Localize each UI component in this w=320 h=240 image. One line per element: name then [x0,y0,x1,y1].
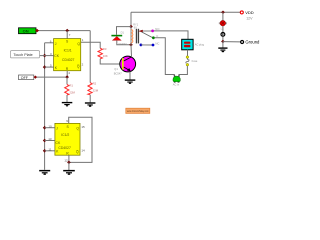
wire cell to ground node [222,37,224,42]
label 1N4007 [118,43,127,46]
label L1 [221,27,225,31]
ground R1 [62,102,73,107]
svg-text:CD4027: CD4027 [58,146,71,150]
svg-text:Fuse: Fuse [192,59,198,63]
label R1 [69,83,73,87]
wire rail corner down to relay [130,12,132,26]
node J2 junction [43,126,47,130]
wire R2 node to ground [68,162,70,170]
label VDD [245,10,254,15]
node R2 junction [67,161,71,165]
label pin 3 [50,52,52,56]
transistor Q1 [120,56,136,72]
svg-text:R3: R3 [103,47,107,51]
label 22M R1 [69,91,75,95]
wire fuse to AC source [179,66,187,76]
svg-text:BC547: BC547 [114,71,122,75]
wire S pin [66,31,68,39]
node CK2 junction [43,139,47,143]
label NC [155,41,159,45]
Touch Plate label [10,51,39,58]
svg-text:Q̅: Q̅ [76,150,79,154]
ON label [19,28,40,34]
wire J2 pin [45,127,55,129]
wire lamp to cell [222,26,224,32]
label D1 [121,30,125,34]
label 22M R2 [93,88,99,92]
wire CK pin [45,55,54,57]
cell B1 [221,33,225,37]
OFF label [19,75,38,80]
AC plug [182,39,193,50]
wire plug to fuse [187,50,189,56]
wire R2 pin down [68,155,70,162]
svg-text:6V: 6V [134,26,137,29]
relay contact NO [151,30,154,33]
label C [156,34,158,38]
svg-text:14: 14 [81,148,85,152]
wire NO to AC plug [154,31,188,39]
label 10K [103,54,108,58]
wire collector to relay [130,45,133,57]
svg-text:ON: ON [23,29,29,34]
label BC547 [114,71,122,75]
wire CK2 pin [45,140,55,142]
wire C to AC source [155,38,175,76]
fuse F1 [186,56,189,66]
label R2 [93,82,97,86]
wire rail to lamp [222,12,224,21]
label NO [155,27,160,31]
ground symbol supply [218,42,227,53]
relay contact C [152,36,155,39]
svg-text:Q̅: Q̅ [77,64,80,68]
svg-text:AC plug: AC plug [195,43,205,47]
wire ON rail [38,30,90,32]
node R junction [65,75,69,79]
label Q1 [114,67,118,71]
wire R1 to ground [66,95,68,102]
wire pivot to NO contact [143,30,153,32]
label pin 11 [48,147,51,151]
label pin 13 [48,137,52,141]
label RY1 [133,23,138,26]
svg-text:OFF: OFF [21,76,29,80]
ground emitter [125,79,136,84]
svg-text:Touch Plate: Touch Plate [13,53,32,57]
AC source [173,75,180,83]
node relay bottom [129,43,133,47]
label AC in [173,83,180,87]
svg-text:J: J [56,127,58,131]
svg-text:AC in: AC in [173,83,180,87]
wire to Ground terminal [223,41,241,43]
svg-text:12V: 12V [246,16,253,20]
terminal Ground [241,41,244,44]
label pin 5 [50,64,52,68]
label pin 2 [82,63,84,67]
svg-text:IC1/1: IC1/1 [64,49,72,53]
node relay top [129,25,133,29]
svg-text:15: 15 [81,125,85,129]
resistor R2 [88,83,92,95]
wire diode to relay bottom [117,40,131,44]
label pin 10 [48,124,52,128]
label pin 9 [66,119,68,123]
label pin 4 [68,71,70,75]
wire OFF to R node [37,76,67,78]
label pin 1 [82,38,84,42]
label pin 12 [64,159,68,163]
wire emitter to ground [129,72,131,80]
svg-text:www.CircuitsToday.com: www.CircuitsToday.com [127,110,149,113]
svg-text:Q1: Q1 [114,67,118,71]
wire S rail down to R2 [89,31,91,83]
relay RY1 coil [131,27,133,45]
label 12V [246,16,253,20]
wire K2 pin [45,150,55,152]
label Ground [245,40,260,45]
ground input column [39,170,50,175]
node CK junction [43,54,47,58]
wire touch plate to column [40,55,45,57]
svg-text:L1: L1 [221,27,225,31]
svg-text:Q: Q [77,42,80,46]
svg-text:NC: NC [155,41,159,45]
svg-text:Ground: Ground [245,40,260,45]
wire K pin [45,66,54,68]
wire R3 to base [100,59,122,64]
svg-text:CK: CK [54,54,59,58]
svg-text:J: J [55,42,57,46]
label pin 15 [81,125,85,129]
label pin 6 [50,39,52,43]
label AC plug [195,43,205,47]
relay contact NC [140,44,155,47]
node S junction [65,29,69,33]
op IC1/2 CD4027 [55,123,80,155]
relay core [136,29,139,44]
wire Q output to R3 [81,42,101,48]
ground R2 [85,102,96,107]
svg-text:R2: R2 [93,82,97,86]
label 6V [134,26,137,29]
wire VDD top rail [131,11,240,13]
node K junction [43,65,47,69]
svg-text:D1: D1 [121,30,125,34]
svg-text:R1: R1 [69,83,73,87]
node K2 junction [43,149,47,153]
label R3 [103,47,107,51]
op IC1/1 CD4027 [54,39,81,72]
svg-text:22M: 22M [69,91,75,95]
resistor R1 [65,77,69,95]
label pin 7 [69,33,71,37]
wire J pin [45,42,54,44]
svg-text:CK: CK [56,141,61,145]
terminal VDD [240,11,243,14]
wire S2 loop [69,117,92,162]
wire input column [44,43,46,170]
relay pivot arrow [138,30,143,33]
wire R pin down [66,71,68,77]
resistor R3 [98,48,102,59]
node ground junction [221,40,225,44]
lamp L1 [219,20,227,26]
watermark CircuitsToday [126,108,150,113]
label Fuse [192,59,198,63]
ground IC2 R [63,170,75,175]
svg-text:10K: 10K [103,54,108,58]
diode D1 [111,35,122,41]
svg-text:VDD: VDD [245,10,254,15]
wire R2 to ground [89,95,91,103]
svg-text:IC1/2: IC1/2 [61,133,69,137]
svg-text:Q: Q [76,127,79,131]
label pin 14 [81,148,85,152]
relay arm [142,32,153,38]
wire junction to diode [117,27,132,35]
svg-text:22M: 22M [93,88,99,92]
node rail junction [221,11,225,15]
svg-text:CD4027: CD4027 [62,58,75,62]
